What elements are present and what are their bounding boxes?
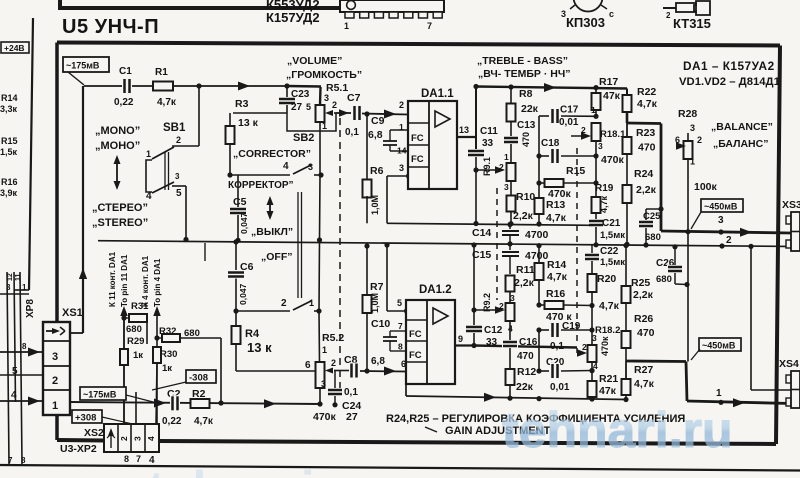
wire C7 to DA1.1 [362, 100, 408, 119]
capacitor C23 [278, 86, 310, 113]
svg-text:R1: R1 [155, 67, 168, 78]
svg-text:R20: R20 [597, 273, 616, 285]
svg-text:1: 1 [309, 298, 314, 308]
svg-text:470: 470 [637, 327, 655, 339]
label MONO [95, 125, 140, 152]
svg-text:R15: R15 [1, 136, 18, 146]
connector XS4 [779, 358, 800, 408]
svg-text:1: 1 [591, 105, 596, 115]
vertical text К 4 конт DA1 [141, 255, 150, 307]
svg-text:C5: C5 [233, 196, 247, 208]
svg-text:R17: R17 [599, 76, 618, 88]
svg-text:2,2к: 2,2к [514, 277, 535, 289]
label СТЕРЕО [92, 202, 148, 229]
svg-text:C17: C17 [560, 105, 579, 116]
svg-text:8: 8 [21, 456, 26, 465]
svg-text:1: 1 [22, 283, 27, 292]
svg-text:C13: C13 [517, 120, 536, 131]
potentiometer R9.2 [482, 293, 515, 340]
svg-text:КТ315: КТ315 [673, 16, 711, 31]
svg-text:7: 7 [427, 21, 432, 31]
svg-text:0,047: 0,047 [238, 283, 248, 305]
capacitor C17 [539, 105, 599, 129]
svg-text:6: 6 [305, 360, 311, 371]
svg-text:R16: R16 [1, 177, 18, 187]
lower out wire [471, 343, 577, 348]
capacitor C7 [339, 92, 362, 138]
svg-text:C11: C11 [480, 126, 498, 137]
svg-text:„БАЛАНС”: „БАЛАНС” [713, 138, 768, 150]
lower feedback bus [406, 393, 626, 402]
volume pot lower feed [236, 370, 315, 372]
svg-text:C14: C14 [472, 227, 491, 239]
svg-text:470: 470 [517, 351, 534, 362]
svg-text:2: 2 [581, 125, 586, 135]
svg-text:R29: R29 [127, 336, 144, 347]
svg-text:C23: C23 [291, 89, 310, 100]
svg-text:R7: R7 [370, 281, 384, 293]
switch SB1 label [163, 122, 186, 134]
module title U5 УНЧ-П [62, 16, 159, 38]
svg-text:3: 3 [399, 163, 404, 173]
resistor R32 [154, 326, 221, 403]
connector XP8 line 1 [7, 272, 9, 464]
ganged dash R5 [339, 118, 341, 390]
svg-text:FC: FC [411, 133, 424, 144]
svg-text:3: 3 [504, 182, 509, 192]
svg-text:2: 2 [666, 11, 671, 20]
svg-text:2: 2 [726, 235, 732, 246]
corrector switch [227, 161, 323, 178]
svg-text:0,22: 0,22 [114, 97, 134, 108]
svg-text:R12: R12 [517, 366, 536, 378]
svg-text:680: 680 [645, 232, 661, 243]
svg-text:1: 1 [322, 121, 327, 131]
svg-text:0,01: 0,01 [550, 382, 570, 393]
caption gain adjustment en [425, 425, 551, 437]
svg-text:C18: C18 [541, 138, 560, 149]
capacitor C16 [502, 337, 538, 368]
capacitor C22 [584, 245, 625, 274]
wire into XS1 pin 3 [0, 342, 43, 357]
connector XP8 line 3 [20, 272, 22, 464]
svg-text:7: 7 [136, 454, 141, 464]
svg-text:„OFF”: „OFF” [261, 251, 293, 263]
capacitor C9 label [368, 115, 385, 141]
svg-text:8: 8 [124, 454, 129, 464]
svg-text:8: 8 [398, 342, 403, 352]
upper feedback bus [387, 223, 593, 225]
resistor R1 [153, 67, 177, 108]
svg-text:C7: C7 [347, 92, 361, 104]
svg-text:+24В: +24В [4, 43, 25, 53]
svg-text:XS4: XS4 [779, 358, 799, 370]
svg-text:47к: 47к [603, 90, 621, 102]
junction C23-input [284, 83, 289, 88]
junction R6 [364, 111, 369, 116]
potentiometer R5.2 [305, 332, 344, 407]
label ГРОМКОСТЬ [286, 69, 362, 81]
svg-text:1: 1 [344, 21, 349, 31]
svg-text:12: 12 [7, 273, 14, 281]
svg-text:5: 5 [397, 298, 402, 308]
ganged dash R9 [496, 188, 498, 300]
svg-text:To pin 4 DA1: To pin 4 DA1 [153, 258, 162, 307]
svg-text:1,0М: 1,0М [370, 195, 380, 215]
wire to C7 [336, 112, 351, 114]
wire R3 top [233, 112, 287, 114]
svg-text:4700: 4700 [525, 250, 549, 262]
svg-text:470: 470 [521, 132, 531, 147]
connector XP8 line 2 [14, 272, 16, 402]
svg-text:„BALANCE”: „BALANCE” [711, 121, 773, 133]
svg-text:„ВЫКЛ”: „ВЫКЛ” [251, 226, 293, 238]
resistor R15 [536, 153, 598, 200]
switch SB2 label [293, 132, 314, 144]
svg-text:XS1: XS1 [62, 307, 83, 319]
svg-text:4,7к: 4,7к [157, 97, 177, 108]
svg-text:470к: 470к [601, 154, 625, 166]
potentiometer R28 [675, 108, 702, 232]
svg-text:8: 8 [22, 342, 27, 351]
DA1.2 output pin9 [455, 334, 474, 346]
transistor КП303 package [561, 0, 614, 19]
svg-text:U3-ХР2: U3-ХР2 [60, 443, 97, 455]
svg-text:13 к: 13 к [238, 117, 259, 129]
output callout upper ~450мВ [691, 199, 743, 229]
svg-text:R14: R14 [547, 259, 566, 271]
svg-text:1: 1 [399, 122, 404, 132]
wire to pin11 [120, 306, 128, 425]
capacitor C12 [465, 242, 505, 348]
svg-text:2: 2 [119, 436, 129, 441]
svg-text:C16: C16 [519, 337, 538, 348]
switch SB1 pin4 [146, 191, 152, 202]
svg-text:2: 2 [176, 135, 181, 145]
resistor R8 [507, 87, 539, 122]
svg-text:33: 33 [482, 138, 494, 149]
resistor R4 [232, 308, 316, 371]
svg-text:0,047: 0,047 [239, 212, 249, 234]
svg-text:3: 3 [133, 436, 143, 441]
svg-text:К157УД2: К157УД2 [266, 10, 320, 25]
label ВЧ-ТЕМБР-НЧ [478, 68, 570, 80]
signal arrow [238, 82, 250, 91]
svg-text:R27: R27 [634, 364, 653, 376]
svg-text:1,5мк: 1,5мк [600, 230, 625, 241]
svg-text:3: 3 [324, 93, 329, 103]
svg-text:R9.2: R9.2 [482, 293, 492, 312]
IC type label К553УД2 [266, 0, 320, 12]
svg-text:13: 13 [459, 125, 469, 135]
svg-text:0,1: 0,1 [344, 387, 358, 398]
resistor R19 [592, 183, 614, 221]
potentiometer R18.1 [571, 105, 626, 197]
switch SB1 pin5 wire [172, 186, 189, 242]
svg-text:3,3к: 3,3к [0, 104, 18, 114]
svg-text:R31: R31 [131, 301, 149, 312]
switch SB1 blade upper [146, 147, 174, 159]
svg-text:0,01: 0,01 [559, 117, 579, 128]
svg-text:ХР8: ХР8 [25, 299, 36, 318]
svg-text:4,7к: 4,7к [637, 98, 658, 110]
svg-text:R4: R4 [245, 328, 260, 340]
svg-text:„STEREO”: „STEREO” [92, 217, 148, 229]
svg-text:47к: 47к [599, 385, 617, 397]
output elbow upper [627, 123, 661, 231]
wire to XS4 upper [751, 246, 791, 390]
label КОРРЕКТОР [228, 180, 294, 191]
potentiometer R5.1 [316, 82, 349, 131]
resistor R2 [191, 388, 214, 427]
DIP package top view [340, 0, 444, 31]
label XS1 [62, 307, 83, 319]
svg-text:3: 3 [175, 172, 180, 181]
resistor R12 [506, 366, 537, 401]
svg-text:„МОНО”: „МОНО” [95, 140, 140, 152]
capacitor C19 [536, 321, 594, 352]
mode arrows [114, 155, 121, 190]
svg-text:C9: C9 [371, 115, 385, 127]
svg-text:XS2: XS2 [84, 427, 104, 439]
svg-text:-308: -308 [189, 373, 208, 384]
capacitor C18 [539, 138, 599, 164]
type note VD1,VD2 [679, 76, 780, 88]
vertical text К 11 конт DA1 [108, 251, 117, 307]
svg-text:2: 2 [499, 162, 504, 172]
svg-text:R28: R28 [678, 108, 697, 120]
svg-text:1: 1 [52, 400, 58, 412]
tone bus [473, 83, 627, 92]
svg-text:1: 1 [146, 149, 151, 159]
resistor R3 [226, 98, 259, 175]
svg-text:1: 1 [322, 345, 327, 355]
capacitor C15 [472, 244, 549, 274]
label КТ315 [673, 16, 711, 31]
svg-text:2,2к: 2,2к [633, 289, 654, 301]
upper output wire [661, 215, 791, 237]
svg-text:6: 6 [675, 135, 680, 145]
main schematic border [57, 43, 780, 445]
output elbow lower [626, 360, 686, 363]
svg-text:C10: C10 [371, 318, 390, 330]
capacitor C21 [588, 218, 625, 247]
svg-text:FC: FC [409, 350, 422, 361]
mid ground bus [98, 241, 776, 261]
svg-text:22к: 22к [521, 103, 539, 115]
callout ~175мВ 2 [80, 387, 157, 403]
svg-text:2: 2 [52, 375, 58, 387]
svg-text:6,8: 6,8 [368, 129, 383, 141]
label OFF [261, 251, 293, 263]
svg-text:4700: 4700 [525, 229, 549, 241]
svg-text:470к: 470к [600, 336, 610, 356]
resistor R25 [622, 243, 654, 331]
junction SB1-input [196, 83, 201, 88]
svg-text:1к: 1к [162, 363, 172, 374]
resistor R23 [623, 123, 656, 185]
resistor R22 [623, 86, 658, 123]
resistor R14 lower [535, 243, 568, 305]
svg-text:3: 3 [690, 123, 695, 133]
svg-text:3: 3 [321, 379, 326, 389]
svg-text:C15: C15 [472, 249, 491, 261]
resistor R14 label [0, 93, 18, 114]
opamp DA1.1 pin3 loop [387, 163, 413, 223]
svg-text:3: 3 [598, 141, 603, 151]
svg-text:R8: R8 [519, 88, 533, 100]
wire C8 to DA1.2 [360, 356, 406, 376]
svg-text:4,7к: 4,7к [194, 416, 214, 427]
svg-text:R24: R24 [634, 168, 653, 180]
resistor R30 [136, 347, 177, 425]
top pinout box (partial) [60, 0, 363, 8]
svg-text:R14: R14 [1, 93, 18, 103]
label VOLUME [287, 55, 342, 67]
+24В supply label box [1, 42, 29, 53]
svg-text:~450мВ: ~450мВ [702, 341, 736, 351]
capacitor C14 [472, 222, 549, 247]
svg-text:C12: C12 [484, 325, 503, 336]
svg-text:„VOLUME”: „VOLUME” [287, 55, 342, 67]
capacitor C11 [467, 88, 505, 226]
svg-text:R22: R22 [637, 86, 656, 98]
svg-text:~175мВ: ~175мВ [83, 390, 117, 400]
wire to pin4 [153, 306, 161, 425]
capacitor C8 [344, 354, 359, 398]
svg-text:0,1: 0,1 [550, 341, 564, 352]
label БАЛАНС [713, 138, 768, 150]
label BALANCE [711, 121, 773, 133]
wire XS3 return [776, 245, 791, 247]
switch SB1 blade lower [152, 172, 182, 199]
svg-text:27: 27 [346, 411, 358, 423]
svg-text:~450мВ: ~450мВ [704, 202, 738, 212]
capacitor C10 label [371, 318, 390, 330]
callout -308 [152, 370, 216, 390]
lower main wire [70, 399, 320, 409]
svg-text:13 к: 13 к [247, 340, 272, 355]
balance tap lower [686, 232, 688, 402]
svg-text:4: 4 [146, 436, 156, 441]
label TREBLE-BASS [477, 55, 568, 67]
capacitor C20 [536, 330, 594, 393]
svg-text:„TREBLE - BASS”: „TREBLE - BASS” [477, 55, 568, 67]
svg-text:R13: R13 [546, 199, 565, 211]
svg-text:4,7к: 4,7к [546, 212, 567, 224]
svg-text:R23: R23 [636, 127, 655, 139]
wiper link box [287, 102, 336, 131]
svg-text:DA1.1: DA1.1 [421, 88, 454, 100]
upper output return [719, 235, 753, 249]
switch SB1 bracket [146, 160, 152, 192]
svg-text:5: 5 [176, 188, 182, 199]
wire into XS1 pin 2 [0, 366, 43, 377]
svg-text:C22: C22 [600, 246, 619, 257]
switch SB1 pin2 [172, 86, 199, 146]
capacitor C25 [638, 206, 664, 247]
label 470к volume [313, 411, 337, 423]
resistor R21 [588, 373, 619, 397]
svg-text:C21: C21 [602, 218, 621, 229]
svg-text:R19: R19 [595, 183, 614, 194]
svg-text:FC: FC [411, 154, 424, 165]
svg-text:tehnari.ru: tehnari.ru [148, 461, 379, 478]
connector XS3 [782, 199, 800, 251]
svg-text:5: 5 [306, 102, 311, 112]
op-amp DA1.2 [406, 284, 455, 384]
svg-text:4: 4 [11, 390, 17, 401]
svg-text:2: 2 [331, 358, 336, 368]
connector XS2 [60, 424, 159, 466]
svg-text:4,7к: 4,7к [599, 195, 609, 213]
svg-text:1: 1 [716, 388, 722, 399]
svg-text:2,2к: 2,2к [636, 184, 657, 196]
output callout lower ~450мВ [691, 338, 741, 360]
svg-text:0,1: 0,1 [345, 127, 359, 138]
switch SB2 link [298, 192, 302, 298]
svg-text:4,7к: 4,7к [547, 271, 568, 283]
svg-text:2: 2 [582, 342, 587, 352]
wire XS1-3 to input [70, 86, 87, 333]
capacitor C24 [327, 371, 361, 424]
svg-text:R30: R30 [160, 349, 177, 360]
corrector arrows [267, 196, 274, 220]
svg-text:470к: 470к [313, 411, 337, 423]
svg-text:11: 11 [15, 273, 22, 281]
svg-text:9: 9 [458, 334, 463, 344]
capacitor C5 [229, 175, 249, 243]
svg-text:C1: C1 [119, 66, 132, 77]
resistor R24 [623, 168, 657, 247]
transistor КТ315 package [663, 1, 710, 20]
opamp compensation cap DA1.1 [383, 122, 408, 156]
svg-text:SB1: SB1 [163, 122, 186, 134]
svg-text:„СТЕРЕО”: „СТЕРЕО” [92, 202, 148, 214]
resistor R11 [506, 244, 535, 303]
resistor R16 label [0, 177, 18, 198]
volume column [317, 131, 322, 362]
wire into XS1 pin 1 [0, 390, 43, 406]
capacitor C6 [227, 239, 254, 311]
svg-text:3: 3 [510, 293, 515, 303]
svg-text:R18.2: R18.2 [595, 325, 620, 336]
svg-text:К 4 конт. DA1: К 4 конт. DA1 [141, 255, 150, 307]
svg-text:FC: FC [409, 329, 422, 340]
svg-text:„MONO”: „MONO” [95, 125, 140, 137]
connector XS1 [43, 322, 70, 415]
resistor R20 [588, 273, 620, 347]
resistor R17 [592, 76, 621, 116]
input wire [84, 85, 321, 88]
svg-text:To pin 11 DA1: To pin 11 DA1 [120, 254, 129, 307]
connector XP8 label [25, 299, 36, 318]
svg-text:R5.2: R5.2 [322, 332, 344, 344]
svg-text:R15: R15 [566, 165, 585, 177]
svg-text:6,8: 6,8 [371, 356, 385, 367]
resistor R13 [535, 116, 567, 227]
DA1.1 output pin13 [457, 125, 476, 137]
opamp DA1.2 pin5 loop [384, 242, 411, 314]
wire into XS1 pin top [0, 293, 29, 295]
wire wiper to C8 [336, 370, 349, 372]
capacitor C26 [656, 244, 690, 287]
svg-text:КП303: КП303 [566, 15, 605, 30]
svg-text:3: 3 [52, 351, 58, 363]
svg-text:DA1.2: DA1.2 [419, 284, 452, 296]
svg-text:+308: +308 [75, 413, 96, 424]
svg-text:1: 1 [690, 157, 695, 167]
